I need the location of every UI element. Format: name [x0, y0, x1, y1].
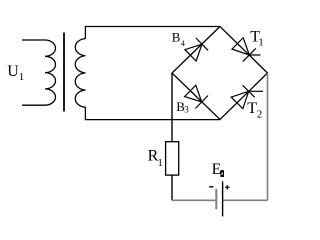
svg-text:B: B — [172, 29, 181, 44]
svg-text:T: T — [247, 100, 257, 117]
transformer U1 primary winding — [22, 40, 56, 105]
battery EB positive plate (long) — [222, 181, 224, 216]
label B3 — [176, 99, 189, 115]
diode B3 (on left-bottom arm, pointing to bottom node) — [185, 85, 208, 108]
label B4 — [172, 29, 185, 48]
svg-text:2: 2 — [257, 109, 263, 121]
svg-text:3: 3 — [184, 105, 189, 115]
wire from left node down to resistor R1 — [171, 73, 173, 142]
diode B4 (on left-top arm, pointing to top node) — [185, 38, 208, 61]
transformer U1 secondary winding — [75, 39, 85, 108]
wire bottom rail from secondary to bridge bottom node — [85, 107, 220, 120]
svg-text:1: 1 — [19, 71, 25, 83]
svg-text:4: 4 — [181, 39, 185, 48]
label T1 — [250, 29, 264, 49]
wire top rail from secondary to bridge top node — [85, 27, 220, 39]
svg-text:1: 1 — [157, 157, 163, 169]
wire battery plus plate to bottom right corner — [223, 199, 268, 201]
thyristor T1 (on top-right arm, pointing to right node) — [232, 38, 261, 62]
bridge diamond wires (nodes: top, left, bottom, right) — [172, 27, 268, 120]
svg-text:U: U — [7, 63, 19, 80]
label T2 — [247, 100, 262, 121]
label EB — [212, 161, 224, 178]
wire from R1 down to bottom-left corner — [171, 175, 173, 200]
svg-text:1: 1 — [258, 36, 264, 48]
label U1 — [7, 63, 24, 83]
resistor R1 — [166, 142, 179, 175]
label R1 — [148, 148, 163, 169]
wire right node down to bottom right corner — [267, 73, 269, 200]
battery minus sign — [209, 186, 213, 188]
battery plus sign — [225, 185, 229, 189]
wire bottom left to battery minus plate — [172, 199, 216, 201]
svg-text:E: E — [212, 161, 222, 178]
battery EB negative plate (short) — [215, 189, 217, 209]
thyristor T2 (on bottom-right arm, pointing to right node) — [231, 85, 263, 108]
transformer U1 core — [63, 33, 65, 112]
